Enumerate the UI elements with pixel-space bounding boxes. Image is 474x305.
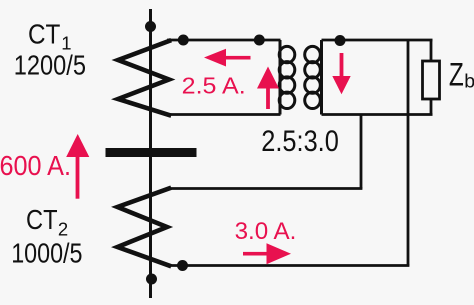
svg-text:2: 2 bbox=[58, 219, 68, 240]
node: bus bottom polarity dot bbox=[146, 274, 157, 285]
node: secondary polarity dot bbox=[335, 35, 346, 46]
node: dot on top wire right bbox=[254, 35, 265, 46]
svg-text:CT: CT bbox=[28, 19, 60, 50]
winding CT1 (zigzag) bbox=[118, 41, 169, 115]
arrow 600A (red, up) bbox=[66, 134, 89, 199]
wire: secondary top (y=40) to Zb bbox=[322, 39, 433, 42]
burden Zb stub top bbox=[430, 40, 433, 61]
svg-text:Z: Z bbox=[449, 56, 464, 92]
node: bus top polarity dot bbox=[145, 21, 156, 32]
wire: CT1 secondary bottom (y=114.5) bbox=[167, 113, 281, 116]
svg-text:3.0 A.: 3.0 A. bbox=[235, 218, 297, 245]
svg-text:2.5 A.: 2.5 A. bbox=[182, 73, 246, 99]
node: dot on CT2 bottom wire bbox=[177, 260, 188, 271]
busbar (thick horizontal bar on bus) bbox=[106, 148, 197, 157]
svg-text:b: b bbox=[464, 70, 474, 92]
svg-text:CT: CT bbox=[26, 204, 58, 235]
svg-text:2.5:3.0: 2.5:3.0 bbox=[261, 125, 339, 158]
wire: right return vertical (x=408) bbox=[407, 40, 410, 266]
arrow 3.0A (red, right) bbox=[243, 243, 291, 264]
svg-text:1000/5: 1000/5 bbox=[11, 238, 82, 269]
aux transformer primary winding (left coil) bbox=[279, 40, 295, 115]
winding CT2 (zigzag) bbox=[118, 189, 170, 266]
burden Zb box bbox=[423, 61, 440, 99]
arrow 2.5A (red, left) bbox=[204, 49, 251, 67]
svg-text:600 A.: 600 A. bbox=[0, 150, 71, 181]
burden Zb stub bottom bbox=[430, 99, 433, 115]
arrow primary current (red, up, inside left loop) bbox=[257, 67, 279, 110]
wire: secondary bottom (y=114.5) to Zb bbox=[322, 113, 433, 116]
wire: CT2 bottom horizontal (y=265.5) bbox=[169, 264, 409, 267]
wire: CT1 secondary top (y=40) bbox=[167, 39, 281, 42]
aux transformer secondary winding (right coil) bbox=[305, 40, 322, 115]
arrow secondary current (red, down, right of coil) bbox=[332, 53, 350, 94]
node: dot on top wire left bbox=[178, 35, 189, 46]
wire: CT2 top horizontal (y=188.5) bbox=[169, 187, 362, 190]
wire: primary bus vertical bbox=[149, 9, 152, 298]
wire: drop from secondary bottom to CT2 top (x=361) bbox=[360, 115, 363, 189]
svg-text:1200/5: 1200/5 bbox=[14, 50, 86, 81]
